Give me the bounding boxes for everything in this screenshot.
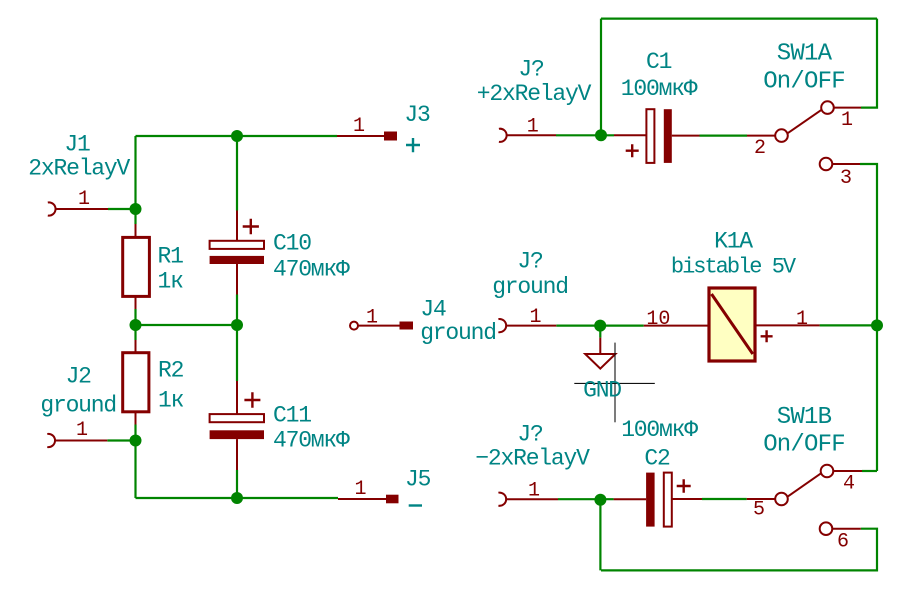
svg-text:J?: J? — [517, 422, 543, 448]
svg-text:470мкФ: 470мкФ — [273, 257, 350, 283]
svg-text:ground: ground — [420, 320, 496, 346]
svg-text:SW1A: SW1A — [777, 41, 833, 68]
svg-text:1: 1 — [78, 188, 90, 211]
svg-text:4: 4 — [843, 473, 855, 496]
svg-text:J?: J? — [517, 249, 543, 275]
svg-text:1: 1 — [529, 306, 541, 329]
svg-text:1: 1 — [527, 115, 539, 138]
svg-text:1: 1 — [796, 308, 808, 331]
svg-text:1: 1 — [354, 478, 366, 501]
svg-text:C1: C1 — [646, 49, 672, 75]
svg-text:−2xRelayV: −2xRelayV — [475, 446, 590, 472]
svg-text:100мкФ: 100мкФ — [621, 417, 698, 443]
svg-text:1: 1 — [353, 115, 365, 138]
svg-text:10: 10 — [646, 308, 670, 331]
svg-text:SW1B: SW1B — [777, 404, 832, 431]
svg-text:6: 6 — [837, 530, 849, 553]
svg-text:2: 2 — [754, 137, 766, 160]
svg-text:1: 1 — [841, 109, 853, 132]
svg-text:ground: ground — [40, 393, 116, 419]
svg-text:J4: J4 — [420, 297, 446, 323]
svg-text:C11: C11 — [273, 403, 311, 429]
svg-text:On/OFF: On/OFF — [763, 69, 845, 96]
svg-text:ground: ground — [492, 274, 568, 300]
svg-text:C10: C10 — [273, 231, 311, 257]
svg-text:1: 1 — [76, 419, 88, 442]
svg-text:K1A: K1A — [714, 229, 753, 255]
svg-text:J?: J? — [518, 57, 544, 83]
svg-text:J5: J5 — [405, 467, 431, 493]
svg-text:100мкФ: 100мкФ — [621, 76, 698, 102]
svg-text:1: 1 — [528, 480, 540, 503]
svg-text:470мкФ: 470мкФ — [273, 428, 350, 454]
svg-text:C2: C2 — [644, 446, 670, 472]
svg-text:On/OFF: On/OFF — [763, 432, 845, 459]
svg-text:2xRelayV: 2xRelayV — [28, 156, 130, 182]
svg-text:3: 3 — [840, 167, 852, 190]
svg-text:+2xRelayV: +2xRelayV — [477, 81, 592, 107]
svg-text:R2: R2 — [158, 358, 184, 384]
svg-text:J2: J2 — [66, 364, 92, 390]
svg-text:R1: R1 — [158, 244, 184, 270]
svg-text:5: 5 — [753, 499, 765, 522]
svg-text:GND: GND — [583, 378, 621, 404]
svg-text:J1: J1 — [64, 132, 90, 158]
svg-text:1к: 1к — [158, 388, 184, 414]
svg-text:J3: J3 — [404, 102, 430, 128]
svg-text:1: 1 — [366, 307, 378, 330]
svg-text:1к: 1к — [158, 269, 184, 295]
svg-text:bistable 5V: bistable 5V — [671, 255, 797, 280]
